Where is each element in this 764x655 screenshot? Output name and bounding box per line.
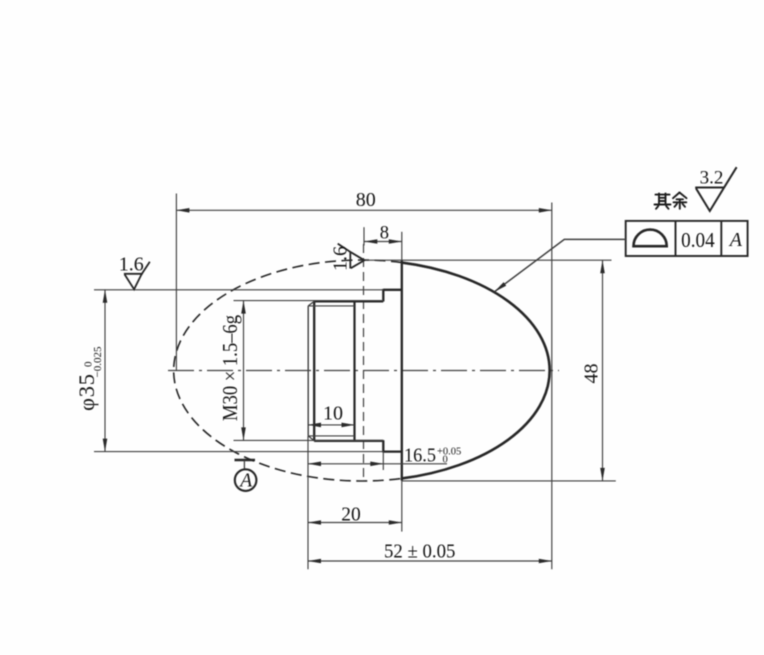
svg-text:0.04: 0.04 <box>681 228 715 252</box>
chamfer diagonal top <box>308 301 315 306</box>
thread major diameter top edge <box>314 300 383 302</box>
stud end face <box>307 306 309 436</box>
text 其余 (rest of surfaces) <box>655 193 687 209</box>
dome (solid half-ellipse outline) <box>402 263 550 479</box>
extension line dome bottom (48 dim) <box>402 480 616 482</box>
collar bottom edge <box>383 450 402 452</box>
thread minor diameter top line <box>308 305 354 307</box>
dimension 20 line <box>308 522 402 524</box>
leader line from tolerance frame to dome surface <box>495 239 626 291</box>
extension line dome base upper (8 dim) <box>401 232 403 261</box>
dimension M30 line <box>243 301 245 441</box>
extension line thread top (M30) <box>234 300 384 302</box>
svg-text:8: 8 <box>380 223 389 243</box>
dimension 16.5 line <box>308 463 447 465</box>
surface finish symbol 3.2 (top right, for all other surfaces) <box>695 167 736 211</box>
dimension 80 line <box>176 209 551 211</box>
extension line left apex (80 dim) <box>175 194 177 372</box>
extension line dome base down (20 dim) <box>401 481 403 532</box>
extension line ellipse top (48 dim) <box>366 259 612 261</box>
surface finish symbol 1.6 left <box>124 262 150 290</box>
svg-text:A: A <box>728 229 743 251</box>
profile tolerance frame <box>626 221 748 256</box>
chamfer line <box>313 301 315 441</box>
thread minor diameter bottom line <box>308 435 354 437</box>
collar left face lower <box>382 440 384 452</box>
extension line dome apex (80 and 52 dims) <box>551 203 553 570</box>
thread end line <box>353 301 355 441</box>
svg-text:−0.025: −0.025 <box>92 346 104 377</box>
svg-text:80: 80 <box>356 189 376 211</box>
svg-text:3.2: 3.2 <box>700 168 724 189</box>
thread major diameter bottom edge <box>314 440 383 442</box>
svg-text:1.6: 1.6 <box>330 246 352 271</box>
dimension phi35 text <box>74 346 104 411</box>
svg-text:M30 × 1.5–6g: M30 × 1.5–6g <box>218 315 242 421</box>
dimension 48 line <box>602 260 604 481</box>
svg-text:A: A <box>238 470 252 491</box>
svg-text:16.5: 16.5 <box>404 444 436 466</box>
dome base vertical line <box>401 260 403 480</box>
dimension 48 text <box>581 364 603 384</box>
svg-text:1.6: 1.6 <box>119 253 144 275</box>
extension line stud end face down (10,16.5,20,52 dims) <box>307 436 309 569</box>
extension line collar bottom (phi35) <box>94 451 383 453</box>
svg-text:φ35: φ35 <box>74 374 99 411</box>
horizontal centerline <box>168 370 559 372</box>
svg-text:0: 0 <box>443 454 448 465</box>
datum A symbol <box>235 459 256 462</box>
dimension M30 text <box>218 315 242 421</box>
vertical dashed center line of ellipse <box>363 244 365 481</box>
profile of surface symbol <box>634 230 667 247</box>
dimension 10 line <box>308 424 355 426</box>
dimension phi35 line <box>104 290 106 452</box>
dimension 52 line <box>308 560 552 562</box>
collar left face upper <box>382 289 384 302</box>
extension line ellipse mid (8 dim) <box>363 227 365 245</box>
svg-text:10: 10 <box>323 403 343 425</box>
extension line collar top (phi35) <box>94 289 383 291</box>
chamfer diagonal bottom <box>308 436 315 441</box>
dimension 8 line <box>364 241 402 243</box>
extension line collar left face down (16.5 dim) <box>382 452 384 470</box>
svg-text:+0.05: +0.05 <box>437 446 461 457</box>
svg-text:48: 48 <box>581 364 603 384</box>
surface finish symbol 1.6 rotated (ellipse top) <box>338 244 365 269</box>
collar top edge <box>383 289 402 291</box>
dashed ellipse (phantom full ellipse of dome) <box>174 260 402 481</box>
svg-text:52 ± 0.05: 52 ± 0.05 <box>384 540 456 562</box>
svg-text:20: 20 <box>341 505 361 526</box>
extension line thread bottom (M30) <box>234 439 384 441</box>
